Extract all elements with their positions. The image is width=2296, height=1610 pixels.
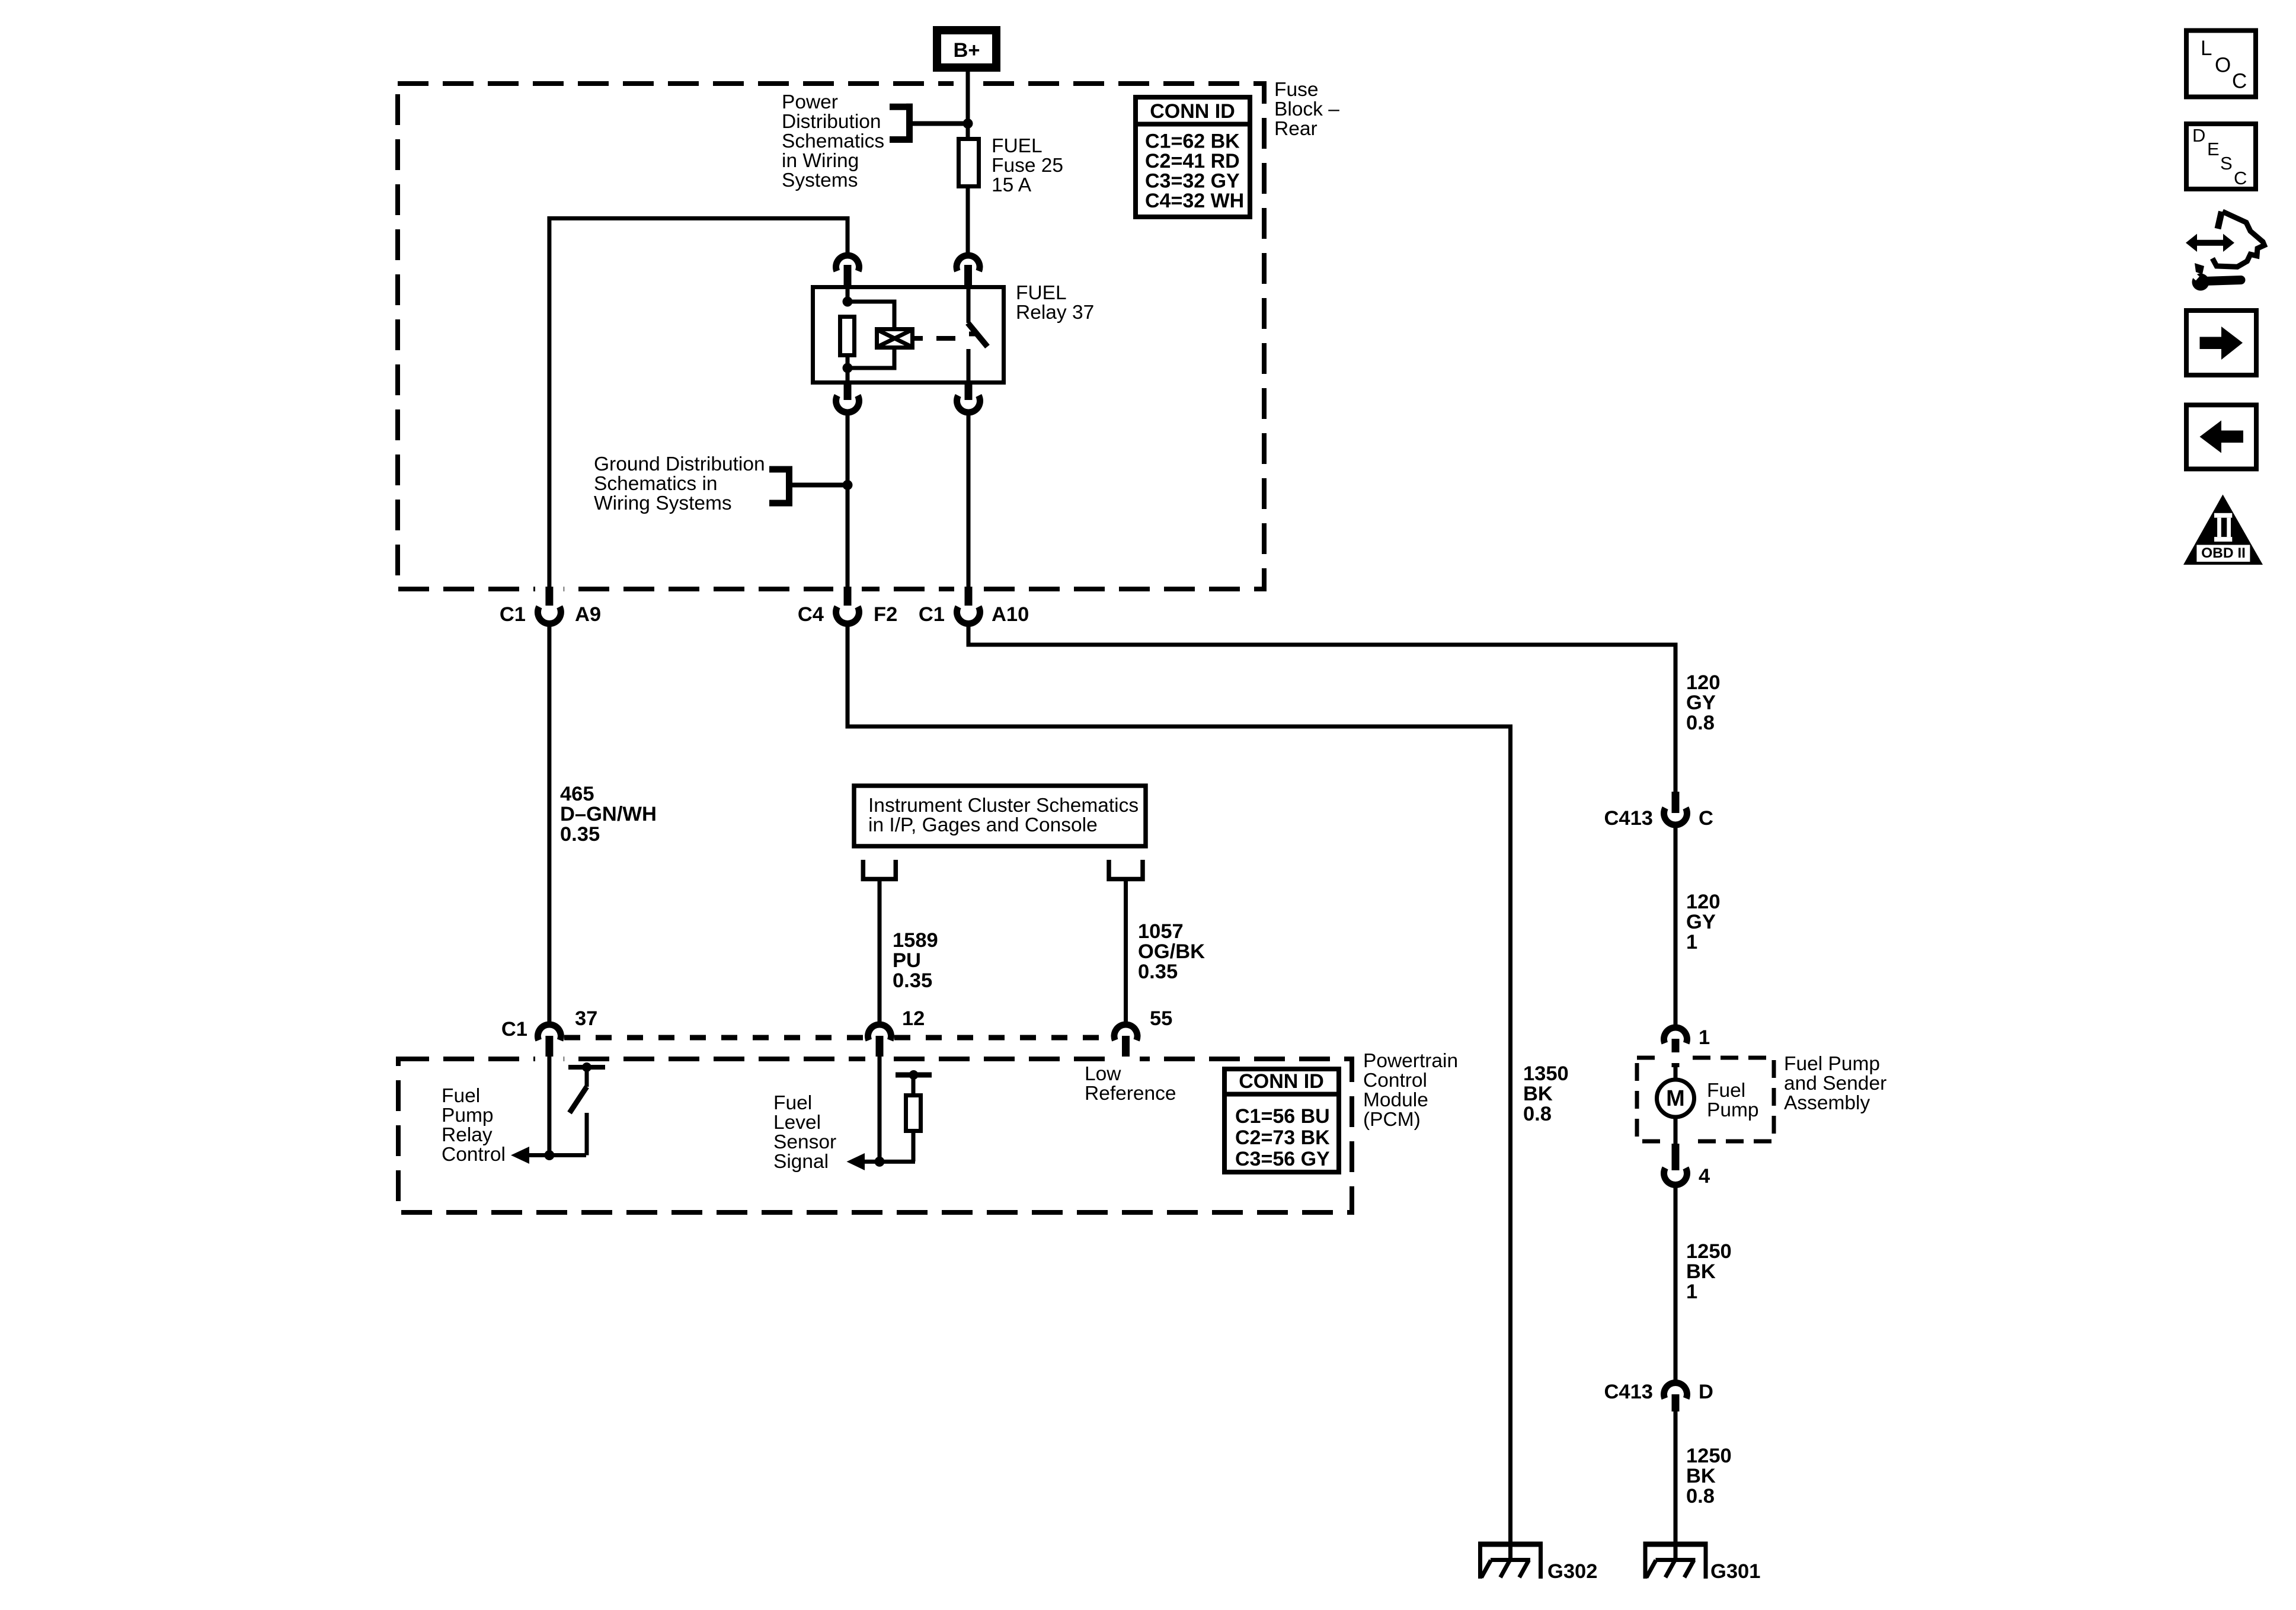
svg-text:Powertrain: Powertrain (1363, 1050, 1458, 1072)
svg-text:A9: A9 (575, 603, 601, 626)
svg-text:Block –: Block – (1274, 98, 1339, 120)
svg-text:OBD II: OBD II (2201, 545, 2246, 561)
svg-text:C: C (2234, 168, 2247, 188)
svg-text:4: 4 (1699, 1165, 1710, 1188)
svg-text:C1: C1 (500, 603, 526, 626)
svg-text:Signal: Signal (773, 1151, 829, 1173)
svg-text:PU: PU (893, 949, 921, 972)
svg-text:C413: C413 (1604, 1381, 1653, 1403)
svg-text:Control: Control (1363, 1070, 1427, 1092)
svg-text:Power: Power (782, 91, 838, 113)
svg-text:D–GN/WH: D–GN/WH (560, 803, 657, 825)
svg-text:BK: BK (1686, 1260, 1716, 1283)
svg-text:BK: BK (1686, 1465, 1716, 1487)
svg-text:Rear: Rear (1274, 118, 1318, 140)
svg-text:D: D (1699, 1381, 1713, 1403)
svg-text:0.35: 0.35 (893, 969, 932, 992)
svg-text:1250: 1250 (1686, 1240, 1732, 1263)
svg-text:Module: Module (1363, 1089, 1428, 1111)
svg-text:C3=32 GY: C3=32 GY (1145, 170, 1240, 193)
svg-text:Pump: Pump (442, 1105, 494, 1126)
svg-text:L: L (2201, 37, 2212, 60)
svg-text:Control: Control (442, 1144, 506, 1166)
svg-text:1350: 1350 (1523, 1062, 1569, 1085)
svg-text:Schematics: Schematics (782, 130, 884, 152)
svg-text:Fuse 25: Fuse 25 (992, 155, 1063, 177)
svg-text:Fuel: Fuel (773, 1092, 812, 1114)
svg-text:1589: 1589 (893, 929, 938, 952)
svg-text:C: C (2232, 69, 2247, 92)
svg-text:0.8: 0.8 (1686, 1485, 1715, 1507)
svg-text:Fuel: Fuel (442, 1085, 480, 1107)
svg-text:S: S (2220, 153, 2233, 174)
svg-text:A10: A10 (992, 603, 1029, 626)
svg-text:Low: Low (1085, 1063, 1121, 1085)
svg-text:Ground Distribution: Ground Distribution (594, 453, 765, 475)
svg-text:55: 55 (1150, 1007, 1172, 1030)
svg-text:1: 1 (1686, 931, 1697, 953)
svg-text:GY: GY (1686, 911, 1716, 933)
svg-text:120: 120 (1686, 891, 1721, 913)
svg-text:in Wiring: in Wiring (782, 150, 859, 172)
svg-text:Reference: Reference (1085, 1083, 1176, 1105)
svg-text:Level: Level (773, 1112, 821, 1134)
svg-text:C2=73 BK: C2=73 BK (1235, 1126, 1330, 1149)
svg-text:BK: BK (1523, 1083, 1553, 1105)
svg-text:C: C (1699, 807, 1713, 830)
svg-text:(PCM): (PCM) (1363, 1109, 1421, 1131)
svg-text:CONN ID: CONN ID (1239, 1070, 1324, 1093)
svg-text:Fuel Pump: Fuel Pump (1784, 1053, 1880, 1075)
svg-text:C1: C1 (501, 1018, 527, 1041)
svg-text:and Sender: and Sender (1784, 1073, 1886, 1094)
svg-text:GY: GY (1686, 692, 1716, 714)
svg-text:E: E (2207, 139, 2220, 159)
svg-text:C1: C1 (919, 603, 945, 626)
svg-text:Pump: Pump (1707, 1099, 1759, 1121)
svg-text:0.8: 0.8 (1523, 1103, 1552, 1125)
svg-text:Sensor: Sensor (773, 1131, 836, 1153)
svg-text:C4: C4 (798, 603, 824, 626)
svg-text:FUEL: FUEL (992, 135, 1043, 157)
svg-text:G301: G301 (1710, 1560, 1760, 1583)
svg-text:M: M (1666, 1086, 1685, 1111)
svg-text:Schematics in: Schematics in (594, 473, 718, 495)
svg-text:in I/P, Gages and Console: in I/P, Gages and Console (868, 814, 1098, 836)
svg-text:0.35: 0.35 (1138, 961, 1178, 983)
svg-text:FUEL: FUEL (1016, 282, 1067, 304)
svg-text:C2=41 RD: C2=41 RD (1145, 150, 1240, 172)
svg-text:1: 1 (1699, 1026, 1710, 1049)
svg-text:F2: F2 (874, 603, 897, 626)
svg-text:C3=56 GY: C3=56 GY (1235, 1148, 1330, 1170)
svg-text:Systems: Systems (782, 169, 858, 191)
svg-text:CONN ID: CONN ID (1150, 100, 1235, 123)
svg-text:C1=62 BK: C1=62 BK (1145, 130, 1240, 153)
svg-text:0.35: 0.35 (560, 823, 600, 846)
svg-text:C4=32 WH: C4=32 WH (1145, 190, 1244, 212)
svg-text:Relay: Relay (442, 1124, 493, 1146)
svg-text:1057: 1057 (1138, 920, 1184, 943)
svg-text:465: 465 (560, 783, 594, 805)
svg-text:37: 37 (575, 1007, 597, 1030)
svg-text:G302: G302 (1547, 1560, 1597, 1583)
svg-text:Fuse: Fuse (1274, 79, 1318, 101)
svg-text:C413: C413 (1604, 807, 1653, 830)
svg-text:B+: B+ (953, 39, 980, 62)
svg-text:O: O (2215, 54, 2231, 77)
svg-text:Assembly: Assembly (1784, 1092, 1870, 1114)
svg-text:D: D (2192, 125, 2205, 146)
svg-text:12: 12 (902, 1007, 925, 1030)
svg-text:Relay 37: Relay 37 (1016, 302, 1094, 324)
svg-text:Fuel: Fuel (1707, 1080, 1745, 1102)
svg-text:C1=56 BU: C1=56 BU (1235, 1105, 1330, 1128)
svg-text:Wiring Systems: Wiring Systems (594, 492, 732, 514)
svg-text:120: 120 (1686, 671, 1721, 694)
svg-text:0.8: 0.8 (1686, 712, 1715, 734)
svg-text:1: 1 (1686, 1281, 1697, 1303)
svg-text:1250: 1250 (1686, 1445, 1732, 1467)
svg-text:Distribution: Distribution (782, 111, 881, 133)
svg-text:OG/BK: OG/BK (1138, 940, 1205, 963)
svg-text:Instrument Cluster Schematics: Instrument Cluster Schematics (868, 795, 1139, 817)
svg-text:15 A: 15 A (992, 174, 1032, 196)
